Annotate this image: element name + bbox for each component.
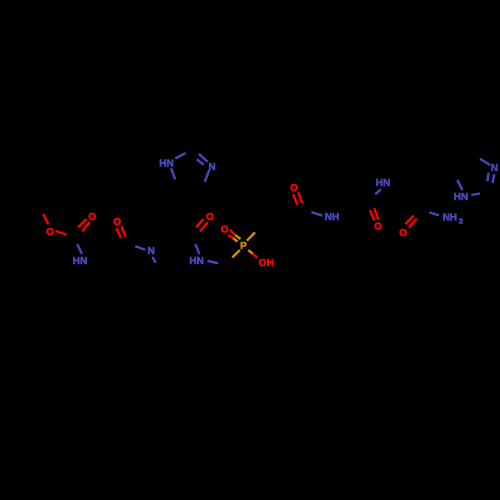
- svg-text:HN: HN: [159, 158, 173, 169]
- svg-text:O: O: [259, 258, 267, 269]
- bond chain amide C to NH (blue half): [311, 212, 322, 216]
- bond chain amide C=O line 2: [298, 192, 302, 203]
- svg-text:N: N: [148, 246, 155, 257]
- bond imidazole1 N1 to C5 (blue half): [171, 168, 175, 179]
- bond chain amide C=O line 1: [293, 194, 297, 205]
- bond amide2 HN to CH2-P (blue half): [207, 261, 218, 263]
- bond imidazole1 C2=N3 line 1: [199, 154, 208, 162]
- svg-text:O: O: [113, 217, 121, 228]
- bond amide4 C=O line 1: [370, 210, 375, 220]
- svg-text:HN: HN: [189, 256, 203, 267]
- bond imidazole2 N1 to C2 (blue half): [471, 194, 480, 196]
- svg-text:HN: HN: [73, 256, 87, 267]
- bond P to OH red half: [253, 254, 258, 258]
- wire bond ester O to carbamate C (red half): [55, 231, 66, 235]
- svg-text:O: O: [46, 227, 54, 238]
- bond imidazole2 N3=C2 line 1: [487, 173, 488, 182]
- bond amide1 C=O line 1: [121, 226, 125, 237]
- svg-text:O: O: [290, 183, 298, 194]
- bond imidazole1 N1 to C2 (blue half): [175, 153, 185, 158]
- bond P=O line 2 red half: [228, 235, 233, 238]
- svg-text:HN: HN: [376, 178, 390, 189]
- bond carbamate C=O line 1: [78, 219, 87, 227]
- bond imidazole1 C2=N3 line 2: [197, 159, 204, 164]
- bond N to benzyl chain CH (blue half): [152, 257, 156, 263]
- bond carbamate C to HN (blue half): [77, 244, 82, 254]
- bond carbamate C=O line 2: [82, 222, 89, 232]
- bond P=O line 1 red half: [230, 230, 235, 235]
- bond terminal amide C to NH2 (blue half): [429, 212, 439, 215]
- bond terminal amide C=O line 2: [409, 219, 417, 228]
- bond imidazole2 C4 to N3 (blue half): [480, 159, 490, 165]
- bond imidazole1 N3 to C4 (blue half): [205, 170, 210, 182]
- bond P to CH2 lower (orange half): [232, 250, 240, 258]
- svg-text:N: N: [208, 162, 215, 173]
- bond terminal amide C=O line 1: [405, 216, 413, 224]
- bond P=O line 2 orange half: [233, 238, 237, 242]
- bond P to OH orange half: [248, 250, 253, 254]
- svg-text:P: P: [240, 241, 247, 252]
- svg-text:O: O: [374, 222, 382, 233]
- svg-text:NH: NH: [325, 212, 339, 223]
- bond P to CH2 upper (orange half): [247, 232, 255, 240]
- bond imidazole2 N1 to C5 (blue half): [457, 180, 462, 190]
- svg-text:O: O: [399, 228, 407, 239]
- bond His amide C=O line 2: [200, 222, 208, 231]
- svg-text:N: N: [491, 163, 498, 174]
- svg-text:NH: NH: [443, 213, 457, 224]
- bond P=O line 1 orange half: [235, 235, 240, 239]
- svg-text:2: 2: [459, 216, 463, 225]
- bond amide4 C to HN (blue half): [375, 189, 381, 194]
- svg-text:H: H: [267, 258, 274, 269]
- bond His amide C=O line 1: [196, 219, 203, 227]
- bond His amide C to HN (blue half): [195, 244, 199, 254]
- svg-text:O: O: [206, 212, 214, 223]
- bond amide1 C=O line 2: [116, 228, 121, 238]
- svg-text:O: O: [88, 212, 96, 223]
- wire bond tBu-C to ester O (red half): [43, 214, 48, 224]
- svg-text:HN: HN: [454, 192, 468, 203]
- bond amide1 C to N (blue half): [135, 246, 145, 250]
- bond imidazole2 N3=C2 line 2: [493, 174, 494, 183]
- svg-text:O: O: [221, 224, 229, 235]
- bond amide4 C=O line 2: [374, 208, 378, 220]
